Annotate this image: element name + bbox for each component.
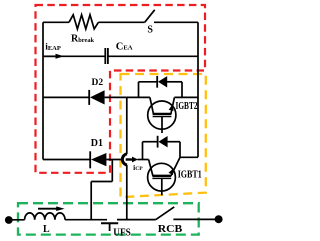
svg-text:iEAP: iEAP: [45, 42, 61, 52]
wire top right: [154, 21, 198, 23]
IGBT2 lead arrowhead: [169, 104, 174, 111]
UFS bar: [101, 222, 118, 224]
svg-text:S: S: [147, 25, 153, 36]
switch S blade: [145, 10, 155, 22]
wire bottom rail from left terminal: [9, 219, 25, 221]
wire icp node to IGBT1: [137, 159, 148, 161]
wire IGBT2 diode branch left: [139, 81, 158, 83]
wire top middle: [98, 21, 144, 23]
UFS stem: [109, 223, 111, 231]
capacitor CEA plates: [105, 48, 108, 64]
wire stub up from D2 row to IGBT2 diode branch: [138, 82, 140, 98]
wire second row left: [43, 55, 105, 57]
wire bottom rail RCB to right terminal: [173, 218, 215, 220]
svg-text:IGBT2: IGBT2: [176, 101, 198, 112]
wire bottom rail to UFS: [65, 219, 107, 221]
diode D1 triangle: [91, 153, 106, 166]
wire branch vertical from D2 row down to icp node: [126, 97, 128, 153]
IGBT1 gate bars: [152, 175, 171, 177]
wire IGBT1 diode branch right: [168, 141, 181, 143]
wire IGBT2 collector right: [174, 96, 198, 98]
wire left vertical: [42, 22, 44, 159]
inductor L humps: [25, 213, 65, 220]
svg-text:IGBT1: IGBT1: [178, 170, 202, 181]
wire bottom rail UFS to RCB: [117, 219, 156, 221]
iEAP arrowhead: [56, 54, 65, 59]
wire IGBT1 diode branch right vertical: [179, 142, 181, 158]
wire top-left horizontal: [43, 21, 69, 23]
IGBT2 gate bars: [153, 113, 172, 115]
svg-text:Rbreak: Rbreak: [71, 33, 95, 44]
icp arrowhead: [132, 157, 138, 163]
IGBT1 lead arrowhead: [169, 168, 174, 175]
svg-text:CEA: CEA: [116, 41, 133, 52]
IGBT1 antiparallel diode triangle: [158, 136, 167, 147]
wire IGBT1 diode branch left: [143, 141, 158, 143]
wire branch B vertical down to bottom rail: [126, 165, 128, 220]
IGBT1 emitter stem: [161, 178, 163, 195]
IGBT1 right diagonal lead: [171, 157, 180, 176]
diode D2 cathode bar: [88, 90, 90, 105]
wire D2 row left: [43, 96, 89, 98]
wire right vertical: [197, 22, 199, 157]
wire branch A horizontal jog: [91, 181, 112, 183]
wire D1 row right: [106, 159, 123, 161]
wire second row right: [108, 55, 198, 57]
icp arrow shaft: [126, 158, 133, 160]
node terminal left dot: [5, 216, 13, 224]
IGBT2 left diagonal lead: [150, 97, 154, 114]
op IGBT1 circle: [148, 163, 176, 191]
inductor arrowhead: [56, 206, 64, 211]
wire IGBT2 diode branch right: [167, 81, 182, 83]
inductor arrow shaft: [38, 208, 57, 210]
diode D2 triangle: [90, 90, 105, 104]
red dashed boundary box (brake unit, stepped outline): [36, 5, 206, 173]
iEAP arrow shaft: [44, 55, 56, 57]
IGBT1 antiparallel diode cathode bar: [157, 136, 159, 148]
wire branch A vertical from D1 row: [111, 160, 113, 182]
wire IGBT1 diode branch left vertical: [142, 142, 144, 160]
resistor Rbreak zigzag: [69, 15, 98, 29]
wire D2 row right: [105, 96, 150, 98]
yellow dashed boundary box (IGBT module): [121, 74, 206, 197]
IGBT1 left diagonal lead: [149, 160, 153, 176]
IGBT2 right diagonal lead: [171, 97, 175, 114]
svg-text:RCB: RCB: [158, 223, 183, 235]
wire D1 row left: [43, 159, 90, 161]
wire branch A lower vertical: [90, 182, 92, 220]
svg-text:D2: D2: [92, 78, 104, 88]
green dashed boundary box (input section): [18, 203, 199, 234]
svg-text:iCP: iCP: [133, 163, 143, 172]
diode D1 cathode bar: [89, 151, 91, 168]
IGBT2 antiparallel diode cathode bar: [156, 76, 158, 88]
wire IGBT2 diode branch right vertical: [181, 82, 183, 98]
IGBT2 emitter stem: [161, 116, 163, 133]
svg-text:L: L: [43, 224, 50, 235]
wire IGBT1 collector to right vertical: [180, 156, 198, 158]
svg-text:D1: D1: [91, 138, 103, 149]
icp node arc: [122, 154, 127, 165]
switch RCB blade: [156, 207, 174, 220]
svg-text:UFS: UFS: [113, 227, 131, 239]
op IGBT2 circle: [148, 101, 176, 129]
node terminal right dot: [215, 215, 223, 223]
IGBT2 antiparallel diode triangle: [158, 76, 167, 87]
